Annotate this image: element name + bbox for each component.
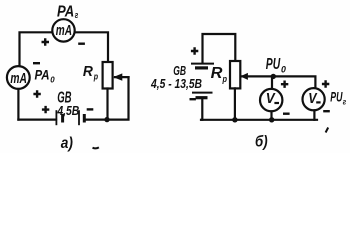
ammeter PA_0 (circle, mA) (7, 66, 30, 89)
svg-text:р: р (93, 71, 98, 81)
svg-text:г: г (343, 97, 347, 107)
svg-text:PA: PA (57, 3, 74, 20)
voltmeter V (PU_g circle) (303, 88, 325, 110)
battery GB cell 2 long plate (circuit b) (192, 92, 213, 94)
wire: R_p bottom lead (circuit b) (234, 88, 236, 119)
polarity - (voltmeter PU_0) (283, 112, 290, 114)
battery GB cell 2 long plate (circuit a) (78, 110, 80, 125)
polarity + (voltmeter PU_g) (322, 80, 329, 87)
wire: circuit b battery bottom stem to bottom-left corner (201, 100, 202, 120)
svg-text:0: 0 (281, 64, 286, 74)
svg-text:mA: mA (10, 70, 27, 87)
junction node: PU_0 bottom to bottom wire (269, 117, 274, 122)
resistor R_p (potentiometer body, circuit a) (103, 62, 113, 89)
wire: stub from wiper wire down to voltmeter PU_0 (271, 76, 273, 89)
polarity - (right of battery GB, circuit a) (87, 108, 94, 110)
polarity + (below PA_0) (33, 90, 40, 97)
svg-text:а): а) (61, 135, 73, 152)
svg-text:V: V (308, 91, 318, 107)
svg-text:PU: PU (330, 89, 343, 105)
wire: R_p bottom lead (circuit a) (106, 89, 108, 120)
ammeter PA_g (circle, mA) (52, 19, 74, 41)
svg-text:0: 0 (50, 75, 55, 85)
svg-text:R: R (83, 64, 93, 80)
polarity + (left of PA_g) (42, 38, 50, 45)
svg-text:р: р (222, 74, 228, 84)
junction node: wiper wire to PU_0 stub (271, 74, 276, 79)
wiper arrowhead (circuit b) (240, 73, 248, 80)
svg-text:PU: PU (266, 56, 281, 73)
battery GB cell 1 long plate (circuit b) (191, 63, 214, 65)
voltmeter V (PU_0 circle) (260, 89, 282, 111)
polarity - (right of PA_g) (78, 43, 85, 45)
svg-text:PA: PA (35, 67, 50, 83)
polarity + (battery top, circuit b) (191, 47, 198, 54)
wire: circuit a top run from PAg to top-right corner down to Rp top (75, 32, 108, 62)
wire: circuit b left vertical from battery top to top wire and to Rp top (203, 34, 236, 63)
wiper arrowhead (circuit a) (113, 73, 122, 80)
battery GB cell 1 short plate (circuit b) (195, 66, 208, 69)
stray tick below circuit b (326, 128, 329, 133)
wire: PU_g voltmeter bottom stub (313, 110, 315, 120)
svg-text:4,5 - 13,5В: 4,5 - 13,5В (150, 76, 202, 91)
wire: wiper line from R_p to corner above voltmeter PU_g (242, 76, 315, 88)
junction node: Rp bottom (circuit b) (232, 117, 237, 122)
polarity - (battery bottom, circuit b) (190, 98, 196, 100)
svg-text:б): б) (255, 134, 268, 151)
battery GB cell 2 short plate (circuit b) (196, 96, 208, 99)
svg-text:V: V (266, 91, 276, 107)
wire: PU_0 voltmeter bottom stub (270, 111, 272, 120)
wire: wiper line of R_p (circuit a) (115, 76, 129, 78)
svg-text:4,5В: 4,5В (57, 103, 80, 118)
resistor R_p (potentiometer body, circuit b) (230, 61, 240, 88)
polarity - (voltmeter PU_g) (323, 110, 330, 112)
svg-text:г: г (75, 10, 79, 20)
stray mark below circuit a (93, 147, 99, 148)
battery GB cell 1 short plate (circuit a) (61, 114, 64, 123)
battery GB cell 2 short plate (circuit a) (83, 114, 86, 123)
wire: circuit b bottom run (202, 119, 318, 121)
wire: circuit a bottom run, battery to Rp junction and right corner (85, 77, 129, 120)
polarity + (voltmeter PU_0) (281, 81, 288, 88)
svg-text:mA: mA (56, 23, 72, 39)
svg-text:R: R (211, 65, 224, 82)
battery GB cell 1 long plate (circuit a) (55, 110, 57, 125)
wire: circuit a bottom run, left of battery GB (18, 118, 56, 120)
junction node: Rp bottom to bottom wire (circuit a) (104, 117, 109, 122)
wire: PA_0 bottom lead to bottom wire (17, 89, 19, 120)
wire: circuit a top-left (left vertical + top run to ammeter PAg) (20, 32, 53, 66)
polarity - (above PA_0) (33, 62, 40, 64)
polarity + (left of battery GB, circuit a) (42, 106, 49, 113)
